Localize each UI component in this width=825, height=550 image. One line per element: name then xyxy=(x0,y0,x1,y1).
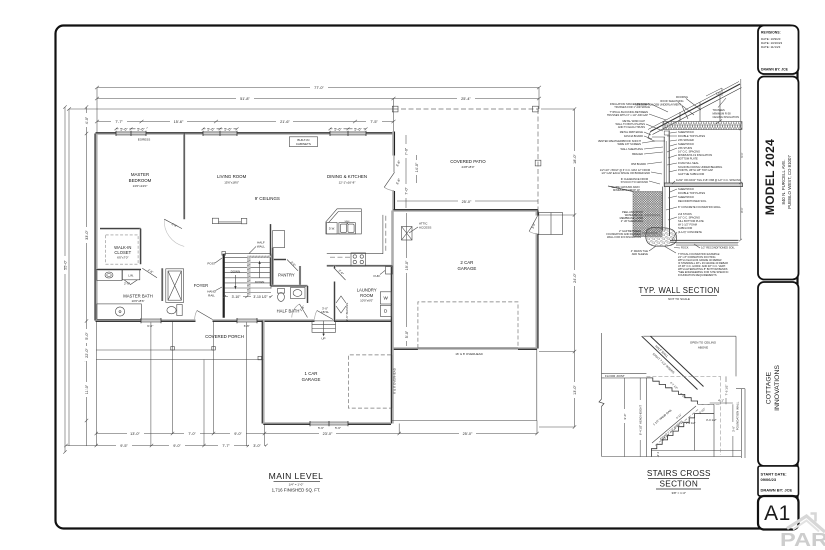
svg-text:AND SLEEVE: AND SLEEVE xyxy=(632,252,649,256)
interior: WIC top wall xyxy=(100,228,141,230)
vanity + sink xyxy=(97,270,122,281)
svg-text:25'-4": 25'-4" xyxy=(461,97,471,101)
interior: pantry walls xyxy=(273,258,286,260)
window dims xyxy=(116,128,146,130)
foundation wall xyxy=(741,389,743,458)
svg-text:19'-0": 19'-0" xyxy=(405,260,409,270)
svg-text:8'-1": 8'-1" xyxy=(740,207,744,212)
footing xyxy=(646,227,677,246)
powder toilet (by WIC) xyxy=(108,276,110,278)
svg-text:FOYER: FOYER xyxy=(194,283,208,288)
svg-text:ROCK: ROCK xyxy=(681,246,689,250)
svg-text:4'-0": 4'-0" xyxy=(85,116,89,124)
svg-text:5'-6": 5'-6" xyxy=(335,426,341,430)
svg-text:2'-6" BI-PASS: 2'-6" BI-PASS xyxy=(345,303,349,321)
svg-text:51'-8": 51'-8" xyxy=(240,97,250,101)
svg-text:COVERED PATIO: COVERED PATIO xyxy=(450,159,486,164)
svg-text:25'-0": 25'-0" xyxy=(462,200,472,204)
svg-text:9'-5": 9'-5" xyxy=(120,444,128,448)
svg-text:WIRE 1/8" SCREEN: WIRE 1/8" SCREEN xyxy=(617,142,641,146)
dimension lines xyxy=(62,84,578,454)
chase box by stairs xyxy=(273,231,285,248)
svg-text:CABINETS: CABINETS xyxy=(296,142,311,146)
svg-text:GAP THE SUBFLOOR: GAP THE SUBFLOOR xyxy=(678,172,704,176)
svg-text:RECONDITIONED SOIL: RECONDITIONED SOIL xyxy=(678,199,707,203)
apron east edge xyxy=(536,349,538,421)
svg-text:5'-6": 5'-6" xyxy=(334,127,342,131)
svg-text:15'-6": 15'-6" xyxy=(174,120,184,124)
svg-text:18'-0": 18'-0" xyxy=(573,154,577,164)
slope mark xyxy=(706,88,722,96)
svg-text:R5# BOARD: R5# BOARD xyxy=(631,162,646,166)
svg-text:DOUBLE TOP PLATES: DOUBLE TOP PLATES xyxy=(678,191,705,195)
svg-text:D.W.: D.W. xyxy=(329,227,335,231)
interior: laundry west wall xyxy=(333,266,335,321)
pantry door xyxy=(287,260,298,271)
window garage south xyxy=(310,422,348,426)
svg-text:1,716 FINISHED SQ. FT.: 1,716 FINISHED SQ. FT. xyxy=(272,488,321,493)
svg-text:5'-6": 5'-6" xyxy=(318,426,324,430)
extension verticals top xyxy=(96,88,98,134)
svg-text:6'0"x7'0": 6'0"x7'0" xyxy=(117,256,128,260)
svg-text:3'-0": 3'-0" xyxy=(253,444,261,448)
svg-text:PUEBLO WEST, CO 81007: PUEBLO WEST, CO 81007 xyxy=(787,155,792,209)
start date box xyxy=(758,466,799,496)
landing xyxy=(698,403,714,405)
svg-text:25'-0": 25'-0" xyxy=(463,432,473,436)
svg-text:DINING & KITCHEN: DINING & KITCHEN xyxy=(327,174,367,179)
svg-text:12'-1"x16'-8": 12'-1"x16'-8" xyxy=(339,181,356,185)
lin closet xyxy=(122,270,139,280)
porch door xyxy=(197,311,213,320)
bottom dim row A xyxy=(96,433,537,435)
svg-text:MODEL 2024: MODEL 2024 xyxy=(763,139,777,215)
bottom dim row B xyxy=(66,445,266,447)
soil hatch xyxy=(633,192,662,237)
svg-text:7'-6 1/2": 7'-6 1/2" xyxy=(725,385,729,396)
interior: half bath east wall xyxy=(306,286,308,303)
interior: stairs east wall xyxy=(269,224,271,286)
svg-text:TRUSSES WITH 3" x 1/2" AIR GAP: TRUSSES WITH 3" x 1/2" AIR GAP xyxy=(607,113,648,117)
svg-text:W: W xyxy=(384,296,389,301)
svg-text:PAR: PAR xyxy=(780,529,825,550)
front door xyxy=(317,311,333,320)
window W3 dining xyxy=(330,132,366,136)
svg-text:10'6"x8'6": 10'6"x8'6" xyxy=(131,299,144,303)
svg-text:7'-5": 7'-5" xyxy=(370,120,378,124)
svg-text:MASTER BATH: MASTER BATH xyxy=(123,294,152,299)
svg-text:5'-0": 5'-0" xyxy=(85,332,89,340)
WIC shelves dashed xyxy=(106,235,138,264)
svg-text:33'-0": 33'-0" xyxy=(85,230,89,240)
svg-text:WALL FOR R-5 INSULATION: WALL FOR R-5 INSULATION xyxy=(607,235,641,239)
dining east wall xyxy=(392,132,395,211)
kitchen counters xyxy=(327,215,383,254)
garage side door opening xyxy=(535,216,541,234)
dim row segments xyxy=(97,121,394,123)
garage south wall xyxy=(394,347,537,350)
svg-text:DOUBLE TOP PLATES: DOUBLE TOP PLATES xyxy=(678,134,705,138)
garage side door xyxy=(539,213,563,235)
interior: half bath north wall xyxy=(271,285,308,287)
svg-text:FOUNDATION REQUIREMENTS: FOUNDATION REQUIREMENTS xyxy=(678,273,717,277)
revisions box xyxy=(758,26,799,75)
eave xyxy=(648,132,665,142)
svg-text:LIVING ROOM: LIVING ROOM xyxy=(217,174,247,179)
svg-text:9'-0": 9'-0" xyxy=(623,414,627,420)
svg-text:8'-4 1/2" HEAD HEIGHT: 8'-4 1/2" HEAD HEIGHT xyxy=(639,405,643,435)
svg-text:TRUSSES: TRUSSES xyxy=(713,108,726,112)
svg-text:FOAM SILL SEAL: FOAM SILL SEAL xyxy=(678,161,699,165)
window W1 bedroom xyxy=(116,132,146,136)
top labels xyxy=(635,95,739,119)
patio interior dims xyxy=(405,135,407,208)
left dims xyxy=(624,378,626,457)
svg-text:16" O.C. SPACING: 16" O.C. SPACING xyxy=(678,216,700,220)
svg-text:5'-6": 5'-6" xyxy=(120,127,128,131)
apron south edge xyxy=(391,420,537,422)
svg-text:3/8" = 1'-0": 3/8" = 1'-0" xyxy=(671,491,686,495)
svg-text:77'-0": 77'-0" xyxy=(314,86,324,90)
svg-text:7'-7": 7'-7" xyxy=(115,120,123,124)
svg-text:24'8"x8'0": 24'8"x8'0" xyxy=(461,165,474,169)
svg-text:09/06/23: 09/06/23 xyxy=(761,477,777,482)
left dim col2 xyxy=(86,107,88,446)
svg-text:DOWN: DOWN xyxy=(231,270,241,274)
svg-text:AND TO EACH TRUSS: AND TO EACH TRUSS xyxy=(618,125,645,129)
svg-text:2X6 SPACER: 2X6 SPACER xyxy=(678,138,694,142)
range xyxy=(351,253,366,266)
svg-text:1/2" RECONDITIONED SOIL: 1/2" RECONDITIONED SOIL xyxy=(701,246,735,250)
svg-text:RAIL: RAIL xyxy=(208,294,215,298)
right dim col xyxy=(574,109,576,427)
svg-text:ACCESS: ACCESS xyxy=(419,226,431,230)
interior: WIC right wall xyxy=(140,229,142,265)
svg-text:MINIMUM 6" DROP 10': MINIMUM 6" DROP 10' xyxy=(613,188,641,192)
extension verticals bottom xyxy=(95,321,97,446)
svg-text:6'-6": 6'-6" xyxy=(244,324,250,328)
svg-text:WALL SHEATHING: WALL SHEATHING xyxy=(620,147,643,151)
tub xyxy=(97,304,142,319)
svg-text:11'-0": 11'-0" xyxy=(85,384,89,394)
svg-text:MASTER: MASTER xyxy=(131,172,149,177)
svg-text:REVISIONS:: REVISIONS: xyxy=(761,31,781,35)
half wall band xyxy=(642,336,698,389)
svg-text:SHEETROCK: SHEETROCK xyxy=(678,187,694,191)
A1 box xyxy=(758,496,799,530)
svg-text:BEDROOM: BEDROOM xyxy=(129,178,152,183)
svg-text:MAIN LEVEL: MAIN LEVEL xyxy=(269,471,324,481)
left leaders xyxy=(642,104,668,251)
dashed refs xyxy=(646,375,720,377)
svg-text:SHEETROCK: SHEETROCK xyxy=(678,195,694,199)
svg-text:3'-10": 3'-10" xyxy=(232,295,241,299)
ceiling insulation band xyxy=(663,122,742,130)
svg-text:1/2" GAP EACH SPACE OR BORED E: 1/2" GAP EACH SPACE OR BORED END xyxy=(601,171,650,175)
stair dims xyxy=(225,296,272,298)
svg-text:5'-6": 5'-6" xyxy=(354,127,362,131)
svg-text:ROOM: ROOM xyxy=(360,293,374,298)
svg-text:2" UP SHEATHING: 2" UP SHEATHING xyxy=(621,219,643,223)
svg-text:5'-6": 5'-6" xyxy=(137,127,145,131)
svg-text:CEILING INSULATION: CEILING INSULATION xyxy=(713,115,740,119)
svg-text:3'-0 1/2": 3'-0 1/2" xyxy=(706,418,717,422)
svg-text:GARAGE: GARAGE xyxy=(302,377,321,382)
svg-text:9'-0": 9'-0" xyxy=(234,432,242,436)
svg-text:METAL DRIP EDGE: METAL DRIP EDGE xyxy=(620,130,644,134)
svg-text:ABOVE: ABOVE xyxy=(698,346,708,350)
svg-text:1/4" = 1'-0": 1/4" = 1'-0" xyxy=(289,483,304,487)
svg-text:UP: UP xyxy=(321,337,325,341)
svg-text:STUCCO TO GROUND: STUCCO TO GROUND xyxy=(621,180,649,184)
patio door opening xyxy=(391,156,397,192)
ceiling line xyxy=(643,335,736,337)
svg-text:13'-0": 13'-0" xyxy=(573,385,577,395)
svg-text:7'-7": 7'-7" xyxy=(222,444,230,448)
garage north wall xyxy=(394,209,539,212)
svg-text:DRAWN BY: JCE: DRAWN BY: JCE xyxy=(761,488,793,493)
svg-text:LAUNDRY: LAUNDRY xyxy=(357,288,377,293)
svg-text:COVERED PORCH: COVERED PORCH xyxy=(205,334,244,339)
watermark xyxy=(780,514,825,550)
interior: kitchen/laundry wall xyxy=(327,265,393,267)
wall studs xyxy=(663,137,665,183)
svg-text:3'-10 1/2": 3'-10 1/2" xyxy=(253,295,268,299)
front steps xyxy=(312,321,336,332)
window W2 living xyxy=(203,132,237,136)
svg-text:11/32" OR 23/32" T&G 4'x8' OSB: 11/32" OR 23/32" T&G 4'x8' OSB @ 1/2" O.… xyxy=(676,178,741,182)
left dim 55'-0" xyxy=(64,107,66,452)
svg-text:SINK: SINK xyxy=(344,221,350,223)
svg-text:SECTION: SECTION xyxy=(660,480,699,489)
porch door opening xyxy=(196,318,213,324)
handrail diagonal xyxy=(652,406,696,443)
svg-text:MINIMUM R-19 INSULATION: MINIMUM R-19 INSULATION xyxy=(678,153,712,157)
svg-text:FASCIA BOARD: FASCIA BOARD xyxy=(624,134,643,138)
svg-text:DRAWN BY: JCE: DRAWN BY: JCE xyxy=(761,68,789,72)
upper flight xyxy=(646,378,697,404)
dim row y109 xyxy=(69,108,394,110)
right vertical dim xyxy=(740,79,742,240)
svg-text:7'-0": 7'-0" xyxy=(405,147,409,155)
lower wall xyxy=(662,187,664,231)
model 2024 box xyxy=(758,77,799,280)
svg-text:SUBFLOOR: SUBFLOOR xyxy=(678,226,692,230)
svg-text:13'-0": 13'-0" xyxy=(130,432,140,436)
svg-text:24'-0": 24'-0" xyxy=(573,273,577,283)
svg-text:8" CONCRETE FOUNDATION WALL: 8" CONCRETE FOUNDATION WALL xyxy=(678,205,722,209)
svg-text:23'-0": 23'-0" xyxy=(323,432,333,436)
svg-text:MINIMUM R-38: MINIMUM R-38 xyxy=(713,112,732,116)
laundry door xyxy=(335,269,346,281)
svg-text:BRACED: BRACED xyxy=(632,152,643,156)
svg-text:PANTRY: PANTRY xyxy=(278,273,295,278)
svg-text:5'-6": 5'-6" xyxy=(224,127,232,131)
svg-text:DATE: 11/1/23: DATE: 11/1/23 xyxy=(761,45,781,49)
svg-text:SILL BOTTOM PLATE: SILL BOTTOM PLATE xyxy=(678,219,704,223)
svg-text:9' CEILINGS: 9' CEILINGS xyxy=(255,196,280,201)
bedroom door xyxy=(164,219,182,228)
svg-text:(4-1/2)" CONCRETE: (4-1/2)" CONCRETE xyxy=(678,230,702,234)
svg-text:9'-0": 9'-0" xyxy=(173,444,181,448)
svg-text:STAIRS CROSS: STAIRS CROSS xyxy=(647,469,711,478)
kitchen island xyxy=(326,209,361,234)
svg-text:W/ 1-1/2" FOAM: W/ 1-1/2" FOAM xyxy=(678,223,697,227)
svg-text:HALF BATH: HALF BATH xyxy=(277,309,300,314)
svg-text:2X6 STUDS: 2X6 STUDS xyxy=(678,146,692,150)
svg-text:COTTAGE: COTTAGE xyxy=(766,371,773,404)
svg-text:21'-6": 21'-6" xyxy=(280,120,290,124)
svg-text:FLOOR JOIST: FLOOR JOIST xyxy=(605,374,625,378)
svg-text:9'-1": 9'-1" xyxy=(740,152,744,157)
title strip xyxy=(758,26,799,530)
left side labels xyxy=(598,102,650,256)
interior: bedroom/living wall xyxy=(183,134,185,220)
porch lines xyxy=(96,349,213,351)
svg-text:DOWN: DOWN xyxy=(255,280,265,284)
svg-text:7'-0": 7'-0" xyxy=(188,432,196,436)
right leaders xyxy=(666,132,677,240)
interior: bath north wall xyxy=(96,268,141,270)
truss verticals xyxy=(679,112,681,122)
svg-text:WALL: WALL xyxy=(257,245,265,249)
stairs section xyxy=(599,333,745,495)
ground line xyxy=(608,186,633,192)
svg-text:INNOVATIONS: INNOVATIONS xyxy=(774,365,781,411)
garage interior dim xyxy=(406,213,408,346)
laundry closet bipass xyxy=(336,296,346,303)
stair arrows xyxy=(234,275,236,288)
patio dashed boundary xyxy=(394,108,539,110)
svg-text:BOTTOM PLATE: BOTTOM PLATE xyxy=(678,157,698,161)
svg-text:TRUSSES FOR 1" AIR SPACE: TRUSSES FOR 1" AIR SPACE xyxy=(614,105,650,109)
svg-text:OPEN TO CEILING: OPEN TO CEILING xyxy=(690,341,717,345)
svg-text:16' & 8' OVERHEAD: 16' & 8' OVERHEAD xyxy=(455,352,483,356)
1-car garage west wall xyxy=(262,321,265,424)
svg-text:2x6 STUDS: 2x6 STUDS xyxy=(678,212,692,216)
svg-text:2 CAR: 2 CAR xyxy=(460,260,473,265)
svg-text:5'-0": 5'-0" xyxy=(405,330,409,338)
WIC door xyxy=(142,268,157,278)
svg-text:ROOF SHEATHING: ROOF SHEATHING xyxy=(660,99,683,103)
svg-text:TYP. WALL SECTION: TYP. WALL SECTION xyxy=(638,286,719,295)
floor joist band xyxy=(602,372,647,374)
svg-text:FOUNDATION WALL: FOUNDATION WALL xyxy=(736,401,740,430)
svg-text:5'-6": 5'-6" xyxy=(207,127,215,131)
svg-text:POST: POST xyxy=(207,262,215,266)
svg-text:4'-1": 4'-1" xyxy=(718,399,724,403)
floor band xyxy=(664,183,742,187)
svg-text:3'-6": 3'-6" xyxy=(731,426,735,432)
left wall line xyxy=(601,333,603,399)
svg-text:SHEETROCK: SHEETROCK xyxy=(678,130,694,134)
svg-text:GARAGE: GARAGE xyxy=(458,266,477,271)
svg-text:15'6"x18'0": 15'6"x18'0" xyxy=(224,181,239,185)
right dims xyxy=(725,376,727,404)
garage east wall xyxy=(535,211,538,349)
window bottom porch xyxy=(237,319,257,323)
svg-text:LB SL: LB SL xyxy=(321,310,330,314)
2car overhead dashed xyxy=(418,302,518,348)
svg-text:14'-0": 14'-0" xyxy=(415,162,419,172)
roof rafter xyxy=(651,84,741,132)
exterior left wall xyxy=(95,134,98,321)
right side wall labels xyxy=(676,130,741,234)
svg-text:POINTS, WITH 1/8" TOP GAP: POINTS, WITH 1/8" TOP GAP xyxy=(678,168,713,172)
svg-text:START DATE:: START DATE: xyxy=(761,472,787,477)
svg-text:13'0"x13'0": 13'0"x13'0" xyxy=(133,184,148,188)
interior: stairs west half wall xyxy=(223,254,225,318)
patio door leaf xyxy=(384,172,394,187)
floor plan walls xyxy=(95,131,541,426)
stairs treads xyxy=(225,254,272,293)
built-in cabinets box xyxy=(289,137,317,147)
dim row 77'-0" xyxy=(97,87,539,89)
cottage innovations box xyxy=(758,282,799,466)
svg-text:10'0"x6'0": 10'0"x6'0" xyxy=(360,299,373,303)
svg-text:840 N. PURCELL AVE.: 840 N. PURCELL AVE. xyxy=(781,160,786,205)
bottom floor xyxy=(602,456,742,458)
living media niche xyxy=(212,218,218,223)
front door opening xyxy=(315,318,335,324)
half bath door xyxy=(300,304,308,318)
svg-text:FUR.: FUR. xyxy=(374,274,381,278)
dim row 51'-8" / 25'-4" xyxy=(97,98,539,100)
svg-text:LIN.: LIN. xyxy=(128,274,134,278)
svg-text:12: 12 xyxy=(716,92,720,96)
svg-text:55'-0": 55'-0" xyxy=(64,260,68,270)
slab xyxy=(670,239,739,241)
svg-text:7'-0": 7'-0" xyxy=(405,187,409,195)
furnace xyxy=(386,267,393,275)
exterior bottom wall xyxy=(96,319,392,322)
lower flight xyxy=(651,414,714,457)
svg-text:EGRESS: EGRESS xyxy=(138,138,151,142)
svg-text:16" O.C. SPACING: 16" O.C. SPACING xyxy=(678,150,700,154)
interior: hall west wall xyxy=(161,268,163,301)
svg-text:1 CAR: 1 CAR xyxy=(305,371,318,376)
svg-text:SHEETROCK: SHEETROCK xyxy=(678,142,694,146)
master toilet xyxy=(177,305,182,316)
washer dryer xyxy=(380,292,391,304)
1-car garage south wall xyxy=(263,422,391,425)
window bottom bath xyxy=(141,319,161,323)
interior detail xyxy=(96,106,562,408)
svg-text:1'-3": 1'-3" xyxy=(656,452,660,457)
1car overhead dashed xyxy=(348,355,391,408)
svg-text:NOT TO SCALE: NOT TO SCALE xyxy=(668,297,690,301)
half bath fixtures xyxy=(278,293,285,302)
attic access xyxy=(402,227,413,241)
svg-text:2'-0": 2'-0" xyxy=(124,282,130,286)
laundry / garage shared east wall xyxy=(391,211,394,424)
svg-text:6'-6": 6'-6" xyxy=(147,324,153,328)
exterior top wall xyxy=(96,132,394,135)
svg-text:CLOSET: CLOSET xyxy=(114,250,131,255)
shower xyxy=(166,269,184,303)
svg-text:22'-0": 22'-0" xyxy=(85,348,89,358)
wall top plate xyxy=(664,131,669,135)
svg-text:2'-0 1/2": 2'-0 1/2" xyxy=(686,421,696,425)
svg-text:8' & 8' OVERHEAD: 8' & 8' OVERHEAD xyxy=(393,367,397,394)
svg-text:A1: A1 xyxy=(764,502,791,525)
